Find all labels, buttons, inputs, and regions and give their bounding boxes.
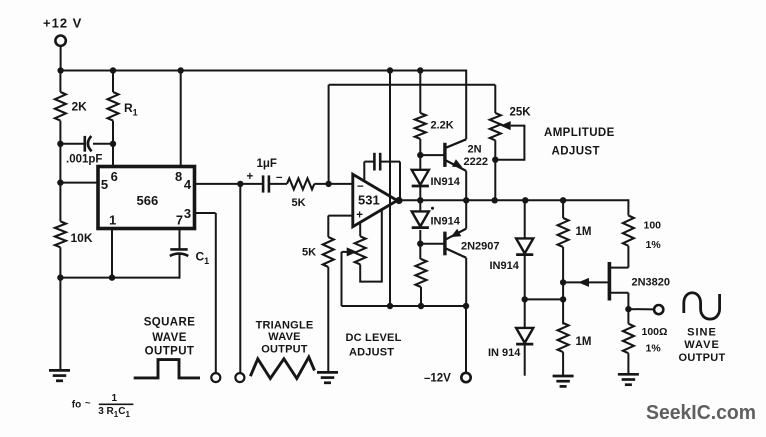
node 25K wiper-bottom junction [492,157,498,163]
wire wiper down [341,252,343,306]
wire feedback vertical x328 [328,85,330,184]
node 25K-bottom junction [492,197,498,203]
wire +12V rail [60,70,467,72]
svg-text:1M: 1M [576,226,592,238]
wire to sine terminal [628,308,654,310]
wire 25K to output bus [494,140,496,201]
wire R1 to cap node [112,121,114,145]
diode D4 1N914 [488,328,533,359]
svg-text:1%: 1% [646,239,662,251]
svg-text:–: – [276,172,283,184]
wire lower rail [342,305,467,307]
svg-text:1: 1 [112,393,118,404]
wire 5K to ground [327,267,329,373]
svg-text:TRIANGLE: TRIANGLE [256,319,314,331]
wire 5K to op-amp minus [314,183,353,185]
resistor R1 [108,92,138,121]
wire 25K top drop [494,85,496,113]
resistor 10K [55,221,93,247]
wire 1M lower to ground [562,352,564,376]
svg-text:2N: 2N [468,144,482,156]
power terminal +12V [43,16,82,46]
wire x390 rail to lower rail [389,71,391,307]
wire C1 to bottom wire [179,254,181,279]
resistor 1M lower [558,323,592,352]
wire diode2 to 2907-base node [419,230,421,244]
wire bottom horizontal [60,277,180,279]
triangle wave glyph [250,357,314,379]
svg-text:OUTPUT: OUTPUT [678,352,725,364]
wire 2N2222 collector up [465,70,467,140]
label SINE WAVE OUTPUT [678,326,725,364]
diode D2 1N914 [412,207,461,228]
node rail-x390 junction [387,67,393,73]
wire resistor to lower rail [420,287,422,306]
pin 6 label [111,169,118,184]
wire cap node to pin 6 [112,144,114,168]
diode D3 1N914 [490,238,534,271]
svg-text:+: + [247,171,254,183]
wire pin 3 down to terminal [215,213,217,373]
node bottom-left junction [57,274,63,280]
label SQUARE WAVE OUTPUT [144,317,196,358]
wire rail to pin 8 [180,71,182,168]
wire drain up [627,246,629,268]
svg-text:2222: 2222 [464,156,488,168]
ground 1M [553,376,574,386]
wire output bus [399,199,628,201]
svg-text:fo: fo [72,399,81,410]
svg-text:1μF: 1μF [257,158,277,170]
potentiometer 25K [490,107,531,141]
power terminal -12V [424,372,471,384]
svg-text:OUTPUT: OUTPUT [261,344,308,356]
node R1-.001pF junction [110,141,116,147]
square wave glyph [134,360,200,378]
triangle wave output terminal [235,373,244,382]
wire 1uF to 5K [269,183,287,185]
node gate junction [560,279,566,285]
node pin1 junction [109,274,115,280]
capacitor feedback [364,153,400,201]
wire tap to 1uF cap [240,183,262,185]
svg-text:IN914: IN914 [431,216,461,228]
wire source down [627,293,629,324]
resistor 2K [55,92,87,121]
transistor Q2 2N2907 [420,229,499,258]
node sine-diode-top junction [522,197,528,203]
svg-text:SeekIC.com: SeekIC.com [646,402,756,424]
capacitor .001pF [60,136,113,166]
node x390 lower junction [387,303,393,309]
svg-text:1%: 1% [646,343,662,355]
25K wiper arrow [500,121,511,130]
svg-text:25K: 25K [510,107,532,119]
wire bottom node to ground [59,278,61,371]
wire cap node to pin5 node [59,144,61,183]
svg-text:2N3820: 2N3820 [632,277,671,289]
wire 10K to bottom node [59,247,61,278]
svg-text:–12V: –12V [424,372,451,384]
pin 7 label [176,213,183,228]
node output-diode junction [417,197,423,203]
wire 100ohm to ground [627,353,629,374]
node source junction [625,306,631,312]
capacitor C1 [170,249,209,266]
label DC LEVEL ADJUST [346,332,402,358]
resistor bias (unlabeled) [416,259,427,287]
svg-text:566: 566 [137,193,159,208]
wire 1M to gate node [562,247,564,283]
svg-text:DC LEVEL: DC LEVEL [346,332,402,344]
svg-text:100Ω: 100Ω [642,326,668,338]
transistor Q1 2N2222 [420,139,488,171]
watermark SeekIC.com [646,402,756,424]
pin 4 label [184,177,192,192]
svg-text:2.2K: 2.2K [431,120,454,132]
svg-text:5K: 5K [292,197,306,209]
pin 8 label [175,169,182,184]
svg-text:.001pF: .001pF [66,154,102,166]
sine wave output terminal [654,305,663,314]
svg-text:AMPLITUDE: AMPLITUDE [544,127,615,139]
wire 1M-top lead [562,200,564,218]
node output-emitter junction [463,197,469,203]
wire rail to R1 [112,71,114,93]
wire 2K to cap node [59,121,61,145]
wire feedback horizontal y85 [329,84,496,86]
wire triangle tap down [239,184,241,373]
wire pin 1 down [111,229,113,279]
wire bias node to 1M lower [562,299,564,324]
svg-text:IN914: IN914 [490,260,520,272]
svg-text:531: 531 [358,193,380,208]
wire gate node to bias node [562,282,564,299]
node 2.2K-base-diode junction [417,152,423,158]
wire output node to diode 2 [419,200,421,211]
svg-text:6: 6 [111,169,118,184]
wire D3 to gate-bias node [524,255,526,300]
wire 2N2907 emitter up [465,200,467,228]
wire D4 stub [524,344,526,375]
wire 2N2907 collector down [465,258,467,306]
node 2K-.001pF junction [57,141,63,147]
wire 2N2222 emitter down [465,171,467,201]
transistor Q3 2N3820 [609,262,670,301]
svg-text:+: + [356,210,363,222]
svg-text:SINE: SINE [687,326,717,338]
node rail-pin8 junction [178,67,184,73]
wire base node to resistor [419,244,422,259]
node resistor-column lower junction [418,303,424,309]
svg-text:1: 1 [109,213,116,228]
wire 2.2K top [419,71,421,114]
svg-text:5K: 5K [302,247,316,259]
node op-amp output [395,197,402,204]
svg-text:10K: 10K [71,231,93,245]
svg-text:2N2907: 2N2907 [461,241,500,253]
svg-text:8: 8 [175,169,182,184]
op-amp U1 566 box [98,167,195,229]
svg-text:1M: 1M [576,336,592,348]
svg-text:7: 7 [176,213,183,228]
svg-text:ADJUST: ADJUST [349,346,394,358]
svg-text:SQUARE: SQUARE [144,317,196,329]
resistor 100ohm 1% [623,324,668,355]
svg-text:+12 V: +12 V [43,16,82,31]
wire pin 4 output [195,183,244,185]
diode D1 1N914 [412,170,461,188]
svg-text:−: − [357,181,364,193]
pot wiper arrow [342,247,358,256]
wire output to diode D3 [524,200,526,238]
wire +12V terminal to rail [60,46,62,71]
wire base node to diode 1 [419,155,421,170]
svg-text:IN914: IN914 [431,176,461,188]
label TRIANGLE WAVE OUTPUT [256,319,314,355]
potentiometer DC level [355,236,366,264]
svg-text:3: 3 [184,206,191,221]
node D3-bias junction [522,296,528,302]
svg-text:100: 100 [644,220,662,232]
gate arrow [578,278,589,287]
wire diode1 to output node [419,186,421,201]
svg-text:5: 5 [101,177,108,192]
svg-text:2K: 2K [72,100,88,114]
ground dc-level [317,372,338,382]
node 1M-bias junction [560,296,566,302]
op-amp U2 531 [353,174,397,226]
svg-text:IN 914: IN 914 [488,347,521,359]
resistor 5K input-gnd [302,237,334,267]
svg-text:~: ~ [85,398,91,409]
formula fo [72,393,134,419]
wire pot top [359,222,361,237]
resistor 2.2K [415,113,454,139]
pin 3 label [184,206,191,221]
node pin5 junction [57,179,63,185]
resistor 5K series [287,178,314,209]
wire pin5 node to 10K [59,183,61,222]
ground 100ohm [618,374,639,384]
node rail-2K junction [57,67,63,73]
svg-text:ADJUST: ADJUST [552,146,600,158]
node triangle-out tap [237,181,243,187]
wire pin 7 to C1 [179,229,181,250]
wire 100 top to bus [627,199,629,215]
svg-text:4: 4 [184,177,192,192]
wire 2.2K to base node [419,139,421,156]
wire pot bottom loop [360,208,382,281]
wire bias node to D4 [524,299,526,328]
node diode2-base junction [417,241,423,247]
resistor 1M upper [558,218,592,247]
node 1M-top junction [560,197,566,203]
wire 25K wiper loop [495,126,524,160]
wire rail to 2K [59,71,61,93]
svg-text:WAVE: WAVE [684,339,720,351]
node rail-R1 junction [110,67,116,73]
pin 1 label [109,213,116,228]
wire to -12V terminal [465,306,467,373]
wire bias horizontal [525,298,563,300]
wire pin 3 right [195,212,216,214]
ground left [49,370,70,380]
pin 5 label [101,177,108,192]
svg-text:WAVE: WAVE [268,331,300,343]
wire plus input [328,216,353,237]
capacitor 1uF [247,158,284,193]
wire gate [563,281,608,283]
sine wave glyph [684,293,720,319]
node emitter-column lower junction [463,303,469,309]
wire pin 5 to left column [60,182,98,184]
label AMPLITUDE ADJUST [544,127,615,158]
square wave output terminal [211,373,220,382]
svg-text:WAVE: WAVE [152,332,187,344]
node feedback-minus junction [325,181,331,187]
resistor 100 1% [623,216,661,252]
svg-text:OUTPUT: OUTPUT [145,346,195,358]
node rail-2.2K junction [417,67,423,73]
